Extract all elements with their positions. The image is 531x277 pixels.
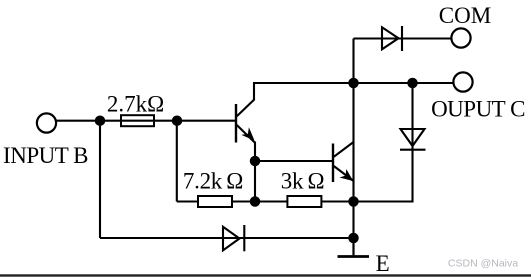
terminal COM <box>451 28 470 47</box>
svg-text:OUPUT C: OUPUT C <box>431 96 525 121</box>
label INPUT B <box>3 143 88 168</box>
wire input drop <box>99 121 101 238</box>
wire base-node drop <box>176 121 178 202</box>
ground E <box>338 238 370 257</box>
label 7.2kOhm <box>183 168 243 193</box>
svg-text:INPUT B: INPUT B <box>3 143 88 168</box>
wire resistor row <box>177 200 354 202</box>
terminal OUPUT C <box>453 72 472 91</box>
svg-text:CSDN @Naiva: CSDN @Naiva <box>448 258 518 270</box>
node rail-left junction <box>349 79 357 87</box>
wire bottom <box>100 237 354 239</box>
resistor 7.2k <box>198 196 232 207</box>
label 3kOhm <box>281 168 325 193</box>
label E <box>376 251 390 276</box>
node rail-right junction <box>408 79 416 87</box>
watermark <box>448 258 518 270</box>
transistor Q1 <box>236 83 255 143</box>
node emitter row junction <box>349 197 357 205</box>
wire COM horizontal <box>354 37 452 39</box>
node bottom junction <box>349 234 357 242</box>
wire Q2 base <box>255 160 333 162</box>
node input junction <box>96 117 104 125</box>
svg-text:COM: COM <box>439 3 491 28</box>
node base Q1 <box>173 117 181 125</box>
wire main right vertical COM-to-ground <box>352 39 354 256</box>
svg-text:E: E <box>376 251 390 276</box>
transistor Q2 <box>333 142 354 182</box>
svg-text:2.7kΩ: 2.7kΩ <box>107 92 164 117</box>
wire input horizontal <box>56 120 236 122</box>
diode output clamp <box>400 129 426 150</box>
label 2.7kOhm <box>107 92 164 117</box>
svg-text:7.2k Ω: 7.2k Ω <box>183 168 243 193</box>
resistor 3k <box>287 196 321 207</box>
terminal INPUT B <box>37 113 56 132</box>
diode COM clamp <box>382 26 402 51</box>
label OUPUT C <box>431 96 525 121</box>
page bottom rule <box>0 274 531 276</box>
wire top rail <box>253 82 454 84</box>
node 7.2k-3k junction <box>251 197 259 205</box>
resistor 2.7k <box>121 115 154 126</box>
wire output diode branch <box>354 83 413 202</box>
diode input clamp <box>223 225 244 251</box>
node emitter-base junction <box>251 157 259 165</box>
label COM <box>439 3 491 28</box>
wire Q1 emitter drop <box>254 142 256 202</box>
svg-text:3k Ω: 3k Ω <box>281 168 325 193</box>
